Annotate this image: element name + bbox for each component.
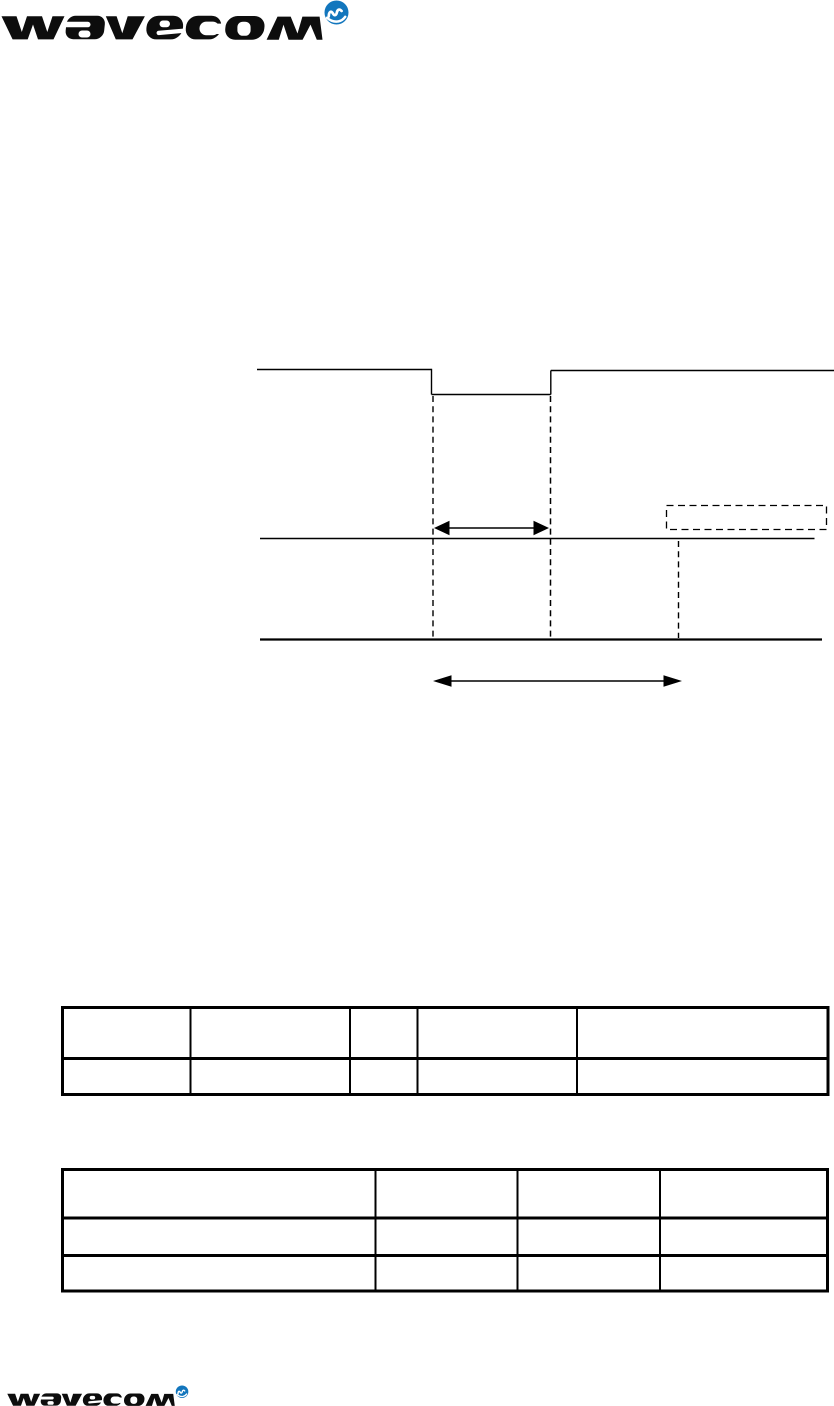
dashed guide line left (432, 396, 434, 638)
top wavecom logo (2, 1, 349, 40)
arrow: pulse width measure shaft (441, 527, 542, 529)
wire: signal high level left segment (257, 369, 432, 371)
table 2 column divider 1 (375, 1171, 377, 1290)
table 2 row divider 1 (64, 1217, 826, 1220)
table 1 column divider 4 (576, 1009, 578, 1093)
table 2 column divider 2 (517, 1171, 519, 1290)
arrowhead left of pulse width arrow (434, 521, 450, 535)
dashed guide line right (550, 396, 552, 638)
dashed annotation box (667, 506, 827, 530)
wire: bottom signal baseline (260, 638, 822, 640)
table 1 column divider 2 (349, 1009, 351, 1093)
table 1 outer border (63, 1008, 829, 1095)
table 2 column divider 3 (659, 1171, 661, 1290)
table 2 row divider 2 (64, 1254, 826, 1257)
arrow: reset duration measure shaft (445, 680, 670, 682)
table 1 header row divider (64, 1057, 827, 1060)
wire: signal high level right segment (551, 370, 834, 372)
wire: signal low level segment (432, 394, 551, 396)
wire: rising edge (550, 371, 552, 395)
arrowhead right of reset duration arrow (664, 675, 683, 687)
arrowhead right of pulse width arrow (534, 521, 550, 535)
table 1 column divider 1 (190, 1009, 192, 1093)
arrowhead left of reset duration arrow (433, 675, 452, 687)
wire: falling edge (431, 369, 433, 395)
table 1 column divider 3 (417, 1009, 419, 1093)
bottom wavecom logo (7, 1385, 188, 1405)
table 2 outer border (63, 1170, 828, 1292)
node: middle signal baseline (260, 538, 815, 540)
dashed guide line far right (678, 541, 680, 638)
